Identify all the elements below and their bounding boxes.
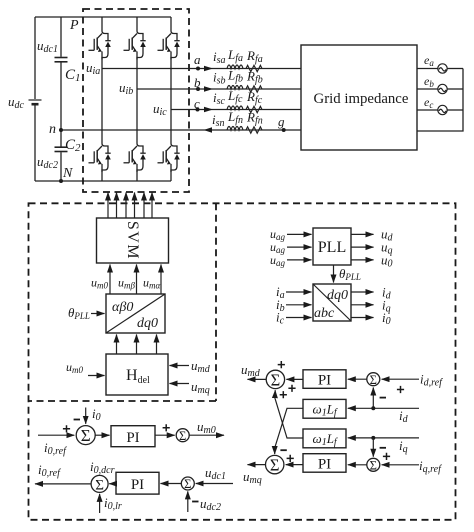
label u_ib [119,80,133,97]
inductor L_fb [227,86,243,90]
wire u_mq into H_del [170,383,190,385]
wire u_m0 into H_del [88,375,105,377]
svg-text:Σ: Σ [270,456,280,475]
source e_a [438,64,447,73]
label L_fa [227,47,243,64]
inductor L_fn [227,127,243,131]
wire grid to source e_b [417,88,463,90]
resistor R_fa [246,65,262,71]
label L_fc [227,88,243,105]
label i_0,dcr [90,459,115,476]
node N label [62,166,73,181]
wire i_0 output [351,317,374,319]
label u_ag 2 [270,240,286,255]
wire u_q output [351,246,374,248]
svg-text:PI: PI [318,373,331,389]
wire grid to source e_c [417,109,463,111]
wire i_0,lr into S8 [99,494,101,513]
transistor S1 (phase a upper) [89,17,111,60]
svg-text:αβ0: αβ0 [112,300,133,315]
label u_dc1 [37,38,58,55]
label u_md (output) [241,362,261,379]
label u_ia [86,60,100,77]
summing junction S2 (i_d error) [367,373,380,387]
node i_q [371,436,375,440]
svg-text:a: a [194,52,201,67]
wire PI dc to S8 [109,483,116,485]
label L_fn [227,109,243,126]
battery u_dc [29,17,42,181]
label i_0,lr [104,495,122,512]
wire theta_PLL into abz0/dq0 [91,313,105,315]
svg-text:Σ: Σ [184,477,191,491]
wire u_m0 output [189,434,224,436]
label e_b [424,74,434,89]
wire u_ag 2 into PLL [287,246,312,248]
sign plus above S1 [278,361,285,368]
label C1 [65,67,81,84]
transistor S2 (phase b upper) [124,17,146,60]
capacitor C1 [55,17,68,130]
resistor R_fn [246,127,262,133]
wire S5 to PI 0 [95,434,109,436]
svg-text:Σ: Σ [370,458,377,472]
block PI d-axis [303,370,346,389]
label i_b [276,297,285,314]
label L_fb [227,68,243,85]
transistor S4 (phase a lower) [89,60,111,182]
sign minus u_dc2 [192,501,198,503]
wire PI 0 to S6 [155,434,175,436]
sign plus at S6 [163,424,170,431]
label i_sa [213,49,226,66]
wire u_ma into SVM [160,265,162,295]
wire top bus P [35,16,171,18]
summing junction S5 (i_0 error) [76,426,95,446]
label u_dc [8,94,25,111]
label R_fb [246,69,263,86]
inductor L_fa [227,65,243,69]
control outer dashed box [29,203,456,520]
label e_c [424,95,433,110]
wire cross coupling lower wLf to S1 [275,390,303,438]
summing junction S6 (u_m0) [176,429,189,443]
wire S2 to PI [348,378,367,380]
node g [278,114,286,132]
label i_0 (transform output) [382,310,391,327]
node c [194,96,200,112]
label i_sn [212,112,225,129]
label u_ag 3 [270,253,286,268]
label u_0 [381,253,393,270]
wire S7 to PI dc [161,483,182,485]
wire u_md into H_del [170,365,190,367]
label u_mq (H_del input) [191,379,210,396]
modulation sub-box dashed divider [29,203,217,401]
label C2 [65,137,81,154]
node a [194,52,201,71]
source e_b [438,84,447,93]
label u_m0 (output) [197,419,216,436]
wire PI q to S4 [286,464,303,466]
label i_d (input) [399,408,409,425]
label R_fc [246,89,263,106]
block H_del [106,354,168,395]
wire i_q output [351,304,374,306]
label i_d (transform output) [382,285,392,302]
label u_q [381,240,393,257]
svg-text:dq0: dq0 [327,288,348,303]
label R_fn [246,110,263,127]
wire i_q to S3 [372,438,374,457]
inverter dashed box [83,9,189,192]
sign plus PI q at S4 [287,455,294,462]
wire i_q input [348,437,419,439]
node b [194,75,201,91]
svg-text:g: g [278,114,285,129]
label i_sc [213,90,226,107]
gate signal wires SVM to inverter [108,193,152,219]
label R_fa [246,48,263,65]
wire u_d output [351,233,374,235]
sign minus i_d [380,397,386,399]
label e_a [424,53,434,68]
sign plus i_0,ref [63,425,70,432]
label u_m0 (SVM input) [91,276,108,291]
label i_d,ref [420,372,443,389]
label u_mb (SVM input) [118,276,135,291]
block wL_f lower [303,429,346,448]
wires H_del to abz0/dq0 [117,335,157,355]
wire i_0 into S5 [85,408,87,424]
wire neutral n with current arrow [61,127,301,133]
label i_0 (feedback) [92,406,101,423]
wire phase b with current arrow [137,86,301,92]
label i_0,ref (input) [44,440,67,457]
wire i_b into dq0/abc [286,304,312,306]
node P label [69,18,79,33]
wire i_a into dq0/abc [286,291,312,293]
svg-text:Σ: Σ [370,373,377,387]
sign minus i_q [380,447,386,449]
node dot N [59,179,63,183]
wire u_md output [248,378,267,380]
wire i_d to S2 [372,388,374,409]
label i_c [276,310,285,327]
sign plus i_q,ref [383,453,390,460]
wire cross coupling upper wLf to S4 [275,408,303,454]
wire phase a with current arrow [102,66,301,72]
node i_d [371,406,375,410]
wire PI to S1 [286,378,303,380]
svg-text:Grid impedance: Grid impedance [314,91,409,107]
label i_q,ref [419,458,442,475]
wire bottom bus N [35,180,171,182]
svg-text:Σ: Σ [81,426,91,445]
wire i_d,ref input [382,378,419,380]
label u_ma (SVM input) [143,276,160,291]
wire u_dc2 into S7 [187,491,189,512]
wire i_q,ref input [382,464,419,466]
label u_md (H_del input) [191,358,211,375]
sign minus cross at S4 [280,449,286,451]
block PLL [313,228,351,265]
summing junction S3 (i_q error) [367,458,380,472]
label theta_PLL (vertical wire) [339,266,361,282]
transform block dq0/abc [313,284,351,321]
wire u_m0 into SVM [109,265,111,295]
resistor R_fb [246,86,262,92]
block wL_f upper [303,399,346,418]
svg-text:Σ: Σ [271,370,281,389]
sign plus i_d,ref [397,386,404,393]
capacitor C2 [55,130,68,181]
block PI zero-seq [111,426,155,447]
wire u_dc1 input [196,483,233,485]
label u_mq (output) [243,469,262,486]
label i_q (transform output) [382,297,391,314]
wire i_d input [348,407,419,409]
sign plus below S1 [280,391,287,398]
wire u_ag 1 into PLL [287,233,312,235]
label u_ic [153,101,167,118]
wire grid to source e_a [417,68,463,70]
label u_d [381,227,394,244]
label u_dc2 (input) [200,496,221,513]
transistor S6 (phase c lower) [158,60,180,182]
svg-text:c: c [194,96,200,111]
sign minus i_0 [74,419,80,421]
inductor L_fc [227,106,243,110]
wire u_ag 3 into PLL [287,259,312,261]
node n [49,122,63,137]
svg-text:P: P [69,18,79,33]
label i_0,ref (output) [38,462,61,479]
svg-text:n: n [49,122,56,137]
resistor R_fc [246,106,262,112]
summing junction S8 (i_0 ref gen) [91,475,108,493]
label u_ag 1 [270,227,286,242]
svg-text:PLL: PLL [318,239,346,256]
wire source common return [417,69,463,132]
transistor S5 (phase b lower) [124,60,146,182]
transform block abz0/dq0 [106,294,165,333]
wire i_d output [351,291,374,293]
svg-text:Σ: Σ [179,429,186,443]
wire u_0 output [351,259,374,261]
label u_m0 (H_del input) [66,360,83,375]
sign plus right of S1 [288,385,295,392]
wire phase c with current arrow [171,107,301,113]
label u_dc1 (input) [205,465,226,482]
label i_a [276,284,285,301]
svg-text:abc: abc [314,306,335,321]
wire S3 to PI q [348,464,367,466]
svg-text:dq0: dq0 [137,316,158,331]
summing junction S4 (u_mq) [266,455,284,474]
label i_q (input) [399,438,408,455]
transistor S3 (phase c upper) [158,17,180,60]
svg-text:N: N [62,166,73,181]
block PI dc-balance [116,472,159,494]
label i_sb [213,70,226,87]
grid impedance block [301,45,417,150]
svg-text:PI: PI [318,456,331,472]
wire u_mb into SVM [136,265,138,295]
label u_dc2 [37,154,58,171]
wire i_0,ref input (zero seq loop) [38,434,74,436]
svg-text:PI: PI [126,430,139,446]
wire i_0,ref output [35,483,91,485]
svg-text:b: b [194,75,201,90]
SVM block [97,218,169,263]
svg-text:SVM: SVM [124,221,141,260]
svg-text:PI: PI [131,477,144,493]
block PI q-axis [303,454,346,473]
wire theta_PLL PLL to dq0/abc [333,265,335,283]
svg-text:Σ: Σ [95,478,104,494]
summing junction S1 (u_md) [266,370,284,389]
wire i_c into dq0/abc [286,317,312,319]
wire u_mq output [248,464,266,466]
label theta_PLL [68,305,90,321]
source e_c [438,105,447,114]
summing junction S7 (u_dc balance) [181,477,194,491]
